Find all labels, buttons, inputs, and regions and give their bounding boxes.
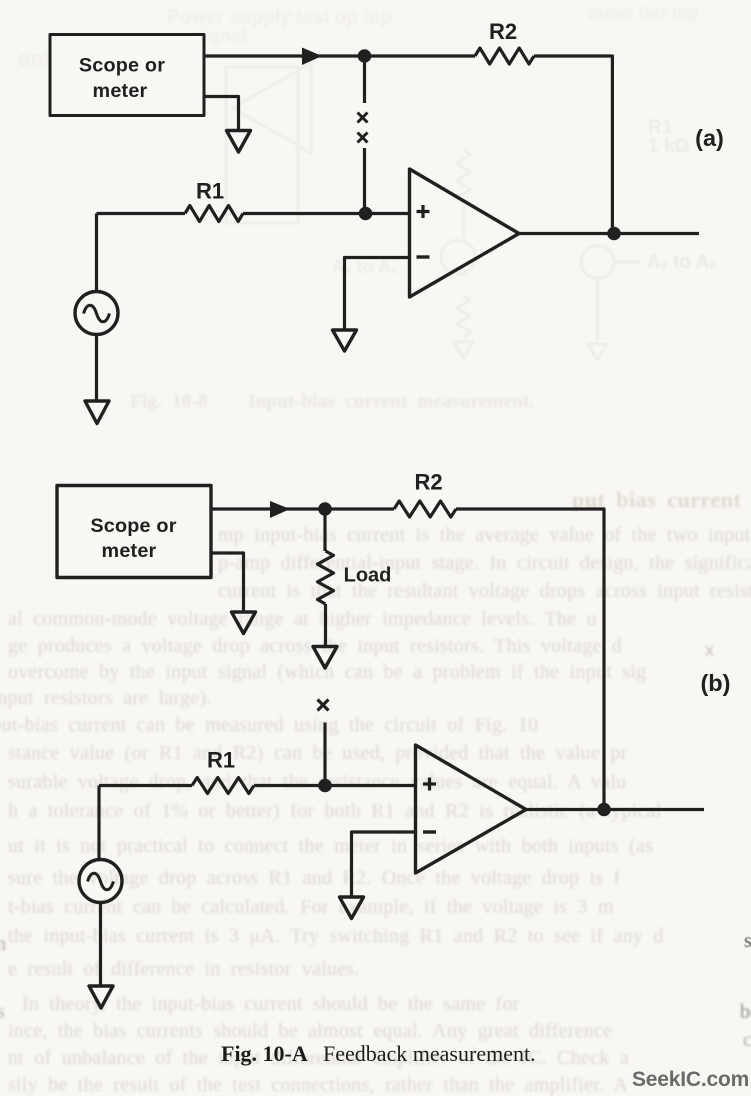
wire: scope A to ground [204, 97, 239, 130]
op-amp U2 (b) [416, 745, 527, 873]
minus sign (a) [417, 255, 430, 258]
ground (source B) [89, 986, 113, 1008]
break mark x (b) [318, 700, 329, 711]
break mark x1 (a) [358, 113, 368, 123]
wire: scope B to ground [211, 553, 244, 611]
ghost box [226, 67, 298, 223]
arrow on wire A [302, 48, 322, 66]
wire: R1 to op-amp B plus input [254, 784, 415, 787]
svg-text:R1: R1 [207, 748, 235, 773]
wire: stub below node A1 [363, 60, 366, 103]
wire: op-amp A minus input to ground [345, 258, 410, 330]
sine symbol (a) [84, 305, 110, 322]
minus sign (b) [423, 830, 436, 833]
resistor R1 (a) [185, 206, 243, 222]
ghost caption of fig 10-B [130, 392, 535, 411]
junction node A3 [359, 207, 373, 221]
op-amp U1 (a) [410, 169, 520, 297]
ghost labels of fig 10-B [648, 118, 690, 156]
plus sign (b) [423, 778, 436, 791]
resistor R1 (b) [192, 778, 254, 794]
wire: source B top [97, 786, 100, 859]
scope box A [50, 35, 204, 116]
wire: source B bottom [99, 903, 102, 986]
svg-text:meter: meter [102, 540, 157, 562]
wire: R2 b right side down to output [456, 509, 604, 810]
wire: R2 to output node (right side down) [534, 56, 612, 234]
wire: box B to R2 [211, 507, 394, 510]
sine source V2 (b) [79, 860, 122, 903]
svg-text:Fig. 10-AFeedback measurement.: Fig. 10-AFeedback measurement. [221, 1041, 536, 1066]
wire: output of op-amp A [519, 232, 699, 235]
resistor R2 (b) [394, 501, 456, 517]
svg-text:R2: R2 [489, 19, 517, 44]
resistor R2 (a) [475, 48, 534, 64]
junction node A1 [358, 49, 372, 63]
GHOST TEXT LAYER [572, 489, 741, 511]
wire: op-amp B minus input to ground [352, 832, 416, 896]
svg-text:(b): (b) [700, 670, 730, 696]
wire: source B corner to R1 [99, 784, 192, 787]
arrow on wire B [270, 501, 290, 518]
wire: source A top [95, 214, 98, 292]
wire: x marks to node A3 [363, 148, 366, 214]
resistor Load (b) [318, 551, 334, 604]
ghost op-amp [233, 63, 311, 153]
sine symbol (b) [88, 873, 114, 890]
wire: x mark to node B2 [323, 723, 326, 786]
svg-text:Load: Load [344, 565, 392, 587]
junction node B1 [318, 502, 332, 516]
wire: R1 to op-amp A plus input [243, 212, 409, 215]
edge fragments [744, 931, 751, 951]
junction node A2 (output) [607, 227, 621, 241]
wire: source A corner to R1 [97, 212, 186, 215]
ghost resistor lower + ground [457, 296, 471, 338]
wire: source A bottom [95, 335, 98, 401]
svg-text:R2: R2 [414, 470, 442, 495]
break mark x2 (a) [358, 133, 368, 143]
ground (scope B) [232, 612, 256, 634]
wire: box A to R2 [204, 54, 475, 57]
svg-text:R1: R1 [196, 179, 224, 204]
ghost resistor upper [457, 150, 471, 238]
wire: output of op-amp B [526, 808, 704, 811]
top ghost smudges [167, 8, 392, 27]
ground (op-amp B minus) [340, 897, 364, 919]
ghost meter circle left [441, 240, 475, 274]
sine source V1 (a) [75, 292, 118, 335]
svg-text:SeekIC.com: SeekIC.com [632, 1068, 749, 1091]
ghost meter circle right [581, 246, 614, 279]
svg-text:meter: meter [93, 80, 148, 102]
svg-text:(a): (a) [695, 125, 724, 151]
wire: Load to ground [324, 604, 327, 646]
ground (scope A) [227, 131, 251, 153]
scope box B [57, 486, 211, 578]
plus sign (a) [417, 205, 430, 218]
svg-text:Scope or: Scope or [79, 55, 165, 77]
ground (source A) [85, 401, 109, 424]
junction node B3 (output) [597, 803, 611, 817]
ground (Load) [313, 647, 337, 669]
ground (op-amp A minus) [333, 330, 357, 351]
junction node B2 [318, 779, 332, 793]
wire: stub below node B1 [323, 514, 326, 551]
svg-text:Scope or: Scope or [90, 515, 176, 537]
